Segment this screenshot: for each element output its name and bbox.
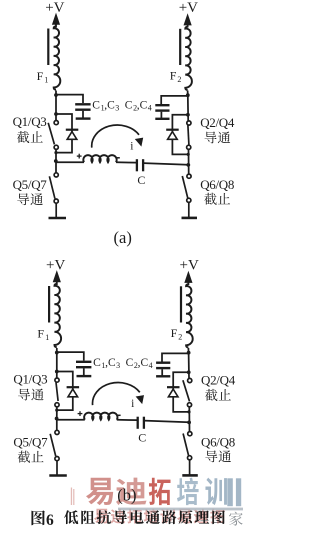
node: diode D1 bottom junction (b) xyxy=(55,409,58,412)
wire: +V arrow (left, b) xyxy=(53,270,61,282)
svg-text:3: 3 xyxy=(115,104,119,113)
switch Q2/Q4 lever (b) xyxy=(183,380,190,401)
svg-text:Q2/Q4: Q2/Q4 xyxy=(201,373,236,388)
svg-text:Q5/Q7: Q5/Q7 xyxy=(13,434,48,449)
wire: rail Q1/Q3 to Q5/Q7 (b) xyxy=(56,407,58,430)
svg-text:3: 3 xyxy=(116,361,120,370)
watermark gray 家 xyxy=(229,512,243,526)
polarity + mark (b) xyxy=(78,413,83,415)
wire: +V arrow (right, a) xyxy=(184,13,192,25)
switch Q5/Q7 lever (b) xyxy=(50,434,56,456)
diode D1 cathode bar (b) xyxy=(67,386,80,388)
capacitor C plates (b) xyxy=(137,417,139,429)
wire: rail node A to Q1/Q3 (b) xyxy=(56,353,58,378)
wire: rail Q2/Q4 to Q6/Q8 (b) xyxy=(188,407,190,432)
ground (right, b) xyxy=(182,474,198,477)
switch Q1/Q3 top terminal (b) xyxy=(55,378,59,382)
node: bridge right junction dot (a) xyxy=(186,163,190,167)
svg-text:4: 4 xyxy=(149,361,153,370)
svg-text:2: 2 xyxy=(177,75,181,84)
label Q5/Q7 state (a) xyxy=(17,193,29,205)
svg-text:C: C xyxy=(138,431,146,445)
wire: node B to C2,C4 (b) xyxy=(162,353,189,361)
wire: coil to node B (b) xyxy=(187,348,189,355)
diode D1 cathode bar (a) xyxy=(66,129,79,131)
caption text 低阻抗导电通路原理图 xyxy=(64,510,78,524)
node: diode D2 bottom junction (a) xyxy=(187,153,190,156)
inductor F1 core bar (left, b) xyxy=(48,286,50,323)
diode D2 cathode bar (a) xyxy=(166,129,179,131)
watermark small red row xyxy=(94,509,108,524)
switch Q1/Q3 lever (a) xyxy=(48,123,54,145)
wire: rail Q2/Q4 to Q6/Q8 (a) xyxy=(188,150,190,175)
label Q6/Q8 state (a) xyxy=(204,193,216,205)
wire: Q5/Q7 to ground (b) xyxy=(56,461,58,475)
node: diode D1 top junction dot (a) xyxy=(54,112,58,116)
svg-text:,C: ,C xyxy=(105,357,116,369)
switch Q1/Q3 bottom terminal (a) xyxy=(54,145,58,149)
svg-text:1: 1 xyxy=(45,333,49,342)
capacitor C2,C4 lower stub and bar (b) xyxy=(161,369,163,376)
polarity + mark (a) xyxy=(77,155,82,157)
wire: node B to C2,C4 (a) xyxy=(161,96,188,104)
capacitor C1,C3 lower stub and bar (a) xyxy=(82,111,84,118)
svg-text:Q6/Q8: Q6/Q8 xyxy=(201,435,235,450)
node: bridge left junction dot (b) xyxy=(55,417,59,421)
diode D1 triangle (a) xyxy=(67,132,77,140)
switch Q6/Q8 bottom terminal (a) xyxy=(187,198,191,202)
label Q2/Q4 state (b) xyxy=(205,389,217,401)
wire: coil to node B (a) xyxy=(187,91,189,98)
switch Q6/Q8 bottom terminal (b) xyxy=(188,456,192,460)
node: diode D1 bottom junction (a) xyxy=(54,151,57,154)
inductor L (horizontal coil, a) xyxy=(83,155,116,162)
svg-text:F: F xyxy=(37,327,44,341)
node: diode D2 bottom junction (b) xyxy=(187,410,190,413)
svg-text:Q2/Q4: Q2/Q4 xyxy=(200,115,235,130)
svg-text:(b): (b) xyxy=(117,486,136,505)
svg-text:,C: ,C xyxy=(137,99,148,111)
wire: capacitor C to right rail (b) xyxy=(144,421,189,423)
wire: node A to C1,C3 (b) xyxy=(57,352,84,360)
wire: rail node A to Q1/Q3 (a) xyxy=(55,95,57,120)
caption 图6 xyxy=(31,510,45,525)
wire: to diode D2 (a) xyxy=(172,115,188,155)
svg-text:C: C xyxy=(126,357,134,369)
capacitor C2,C4 lower stub and bar (a) xyxy=(160,112,162,119)
switch Q5/Q7 bottom terminal (a) xyxy=(54,199,58,203)
svg-text:+V: +V xyxy=(180,258,199,274)
inductor L (horizontal coil, b) xyxy=(84,413,117,420)
svg-text:Q6/Q8: Q6/Q8 xyxy=(200,177,234,192)
wire: Q6/Q8 to ground (a) xyxy=(188,203,190,218)
svg-text:+V: +V xyxy=(45,0,64,16)
inductor F1 winding (left, b) xyxy=(55,284,62,347)
capacitor C1,C3 plates (a) xyxy=(75,103,90,105)
label Q1/Q3 state (b) xyxy=(18,389,30,401)
diode D1 triangle (b) xyxy=(68,389,78,397)
wire: +V arrow (right, b) xyxy=(184,271,192,283)
node A junction dot (a) xyxy=(54,93,58,97)
svg-text:C: C xyxy=(93,357,101,369)
wire: coil to node A (a) xyxy=(55,91,57,98)
wire: rail node B to Q2/Q4 (a) xyxy=(187,95,189,121)
wire: inductor L to capacitor C (a) xyxy=(116,161,137,163)
node A junction dot (b) xyxy=(55,351,59,355)
node: bridge right junction dot (b) xyxy=(187,421,191,425)
svg-text:C: C xyxy=(92,99,100,111)
switch Q1/Q3 bottom terminal (b) xyxy=(55,403,59,407)
label Q2/Q4 state (a) xyxy=(205,132,217,144)
svg-text:F: F xyxy=(37,69,44,83)
switch Q5/Q7 top terminal (a) xyxy=(54,173,58,177)
svg-text:(a): (a) xyxy=(114,228,132,247)
node: diode D2 top junction dot (b) xyxy=(187,370,191,374)
inductor F1 winding (left, a) xyxy=(54,27,61,90)
switch Q6/Q8 top terminal (a) xyxy=(187,174,191,178)
node: diode D1 top junction dot (b) xyxy=(55,370,59,374)
svg-text:+V: +V xyxy=(46,258,65,274)
diode D2 triangle (b) xyxy=(168,389,178,397)
watermark 易迪拓培训 xyxy=(86,478,113,505)
wire: node A to C1,C3 (a) xyxy=(56,95,83,103)
node B junction dot (b) xyxy=(187,351,191,355)
wire: rail Q1/Q3 to Q5/Q7 (a) xyxy=(55,150,57,173)
wire: to diode D1 (b) xyxy=(57,372,73,411)
watermark gray band xyxy=(118,508,243,511)
current arc arrow i (b) xyxy=(93,383,140,406)
wire: rail node B to Q2/Q4 (b) xyxy=(188,353,190,379)
label Q6/Q8 state (b) xyxy=(205,450,217,462)
wire: coil to node A (b) xyxy=(56,348,58,355)
svg-text:Q1/Q3: Q1/Q3 xyxy=(13,114,47,129)
wire: +V arrow (left, a) xyxy=(52,13,60,25)
node: diode D2 top junction dot (a) xyxy=(186,113,190,117)
switch Q6/Q8 lever (a) xyxy=(182,176,188,199)
switch Q2/Q4 lever (a) xyxy=(188,125,189,144)
inductor F2 core bar (right, b) xyxy=(180,286,182,322)
capacitor C plates (a) xyxy=(136,159,138,171)
svg-text:1: 1 xyxy=(44,75,48,84)
watermark vertical bars (neighbour tile strokes) xyxy=(227,478,233,506)
svg-text:6: 6 xyxy=(46,512,54,529)
svg-text:Q1/Q3: Q1/Q3 xyxy=(13,372,47,387)
switch Q6/Q8 lever (b) xyxy=(183,434,189,457)
svg-text:C: C xyxy=(125,99,133,111)
switch Q1/Q3 top terminal (a) xyxy=(54,121,58,125)
capacitor C2,C4 plates (b) xyxy=(156,362,170,364)
svg-text:,C: ,C xyxy=(138,357,149,369)
inductor F2 winding (right, a) xyxy=(185,27,192,90)
node B junction dot (a) xyxy=(186,93,190,97)
capacitor C1,C3 lower stub and bar (b) xyxy=(83,368,85,375)
switch Q2/Q4 bottom terminal (a) xyxy=(187,145,191,149)
switch Q2/Q4 top terminal (a) xyxy=(187,121,191,125)
switch Q1/Q3 lever (b) xyxy=(56,382,58,401)
switch Q5/Q7 lever (a) xyxy=(49,176,55,198)
svg-text:+V: +V xyxy=(179,0,198,16)
wire: left junction to inductor L (b) xyxy=(57,419,85,421)
wire: to diode D2 (b) xyxy=(173,372,189,412)
svg-text:i: i xyxy=(130,141,133,153)
svg-text:,C: ,C xyxy=(104,99,115,111)
diode D2 cathode bar (b) xyxy=(167,386,180,388)
svg-text:F: F xyxy=(171,326,178,340)
polarity - mark (b) xyxy=(117,414,120,416)
label Q5/Q7 state (b) xyxy=(18,451,30,463)
switch Q2/Q4 bottom terminal (b) xyxy=(187,403,191,407)
wire: Q5/Q7 to ground (a) xyxy=(55,203,57,217)
capacitor C2,C4 plates (a) xyxy=(155,104,169,106)
wire: Q6/Q8 to ground (b) xyxy=(189,460,191,475)
wire: left junction to inductor L (a) xyxy=(56,161,84,163)
capacitor C1,C3 plates (b) xyxy=(76,361,91,363)
svg-text:2: 2 xyxy=(178,333,182,342)
svg-text:i: i xyxy=(131,398,134,410)
switch Q5/Q7 top terminal (b) xyxy=(55,430,59,434)
inductor F2 winding (right, b) xyxy=(186,284,193,347)
wire: capacitor C to right rail (a) xyxy=(143,163,188,165)
node: bridge left junction dot (a) xyxy=(54,159,58,163)
svg-text:C: C xyxy=(137,173,145,187)
ground (right, a) xyxy=(182,217,198,220)
wire: inductor L to capacitor C (b) xyxy=(117,419,138,421)
ground (left, b) xyxy=(49,474,67,477)
inductor F1 core bar (left, a) xyxy=(47,29,49,66)
svg-text:Q5/Q7: Q5/Q7 xyxy=(13,177,48,192)
label Q1/Q3 state (a) xyxy=(17,131,29,143)
switch Q2/Q4 top terminal (b) xyxy=(188,378,192,382)
diode D2 triangle (a) xyxy=(168,132,178,140)
current arc arrow i (a) xyxy=(92,125,139,148)
inductor F2 core bar (right, a) xyxy=(179,29,181,65)
svg-text:F: F xyxy=(170,69,177,83)
switch Q5/Q7 bottom terminal (b) xyxy=(55,457,59,461)
wire: to diode D1 (a) xyxy=(56,114,72,153)
switch Q6/Q8 top terminal (b) xyxy=(188,432,192,436)
polarity - mark (a) xyxy=(117,157,120,159)
ground (left, a) xyxy=(49,217,67,220)
svg-text:4: 4 xyxy=(148,104,152,113)
